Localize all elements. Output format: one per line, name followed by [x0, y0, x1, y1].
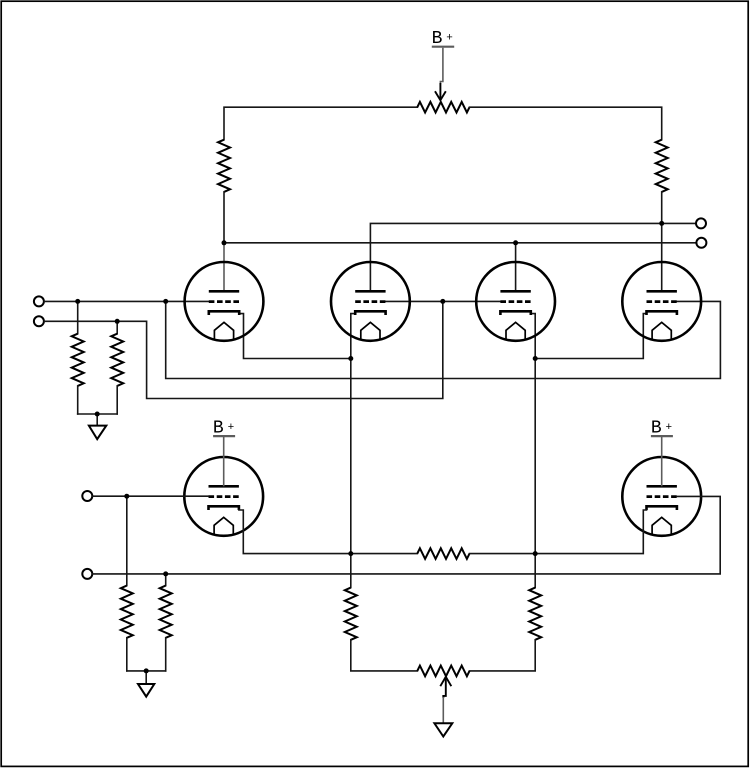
wire R4-R5 join [78, 413, 118, 415]
wire J1 cross-couple to V4 grid [166, 301, 721, 378]
potentiometer R13 (balance) [417, 666, 469, 677]
junction node [513, 240, 518, 245]
ground G2 [138, 671, 154, 697]
wire V1 cathode lead [239, 314, 351, 359]
wire V5 plate lead [223, 436, 225, 486]
junction node [163, 571, 168, 576]
input terminal J2 [34, 316, 44, 326]
junction node [348, 356, 353, 361]
junction node [124, 494, 129, 499]
output terminal J5 [696, 218, 706, 228]
wire R2 to node [223, 192, 225, 243]
net label B+ (V6 supply) [651, 418, 673, 438]
wire V5 cathode lead to R8 [239, 510, 417, 554]
resistor R2 (left plate load) [218, 140, 230, 192]
potentiometer R1 [417, 102, 469, 113]
triode V3 [476, 262, 555, 341]
wiper arrow of R13 [440, 677, 451, 698]
resistor R10 [160, 574, 172, 671]
triode V2 [331, 262, 410, 341]
wire R8 to V6 cathode [470, 510, 647, 554]
wire R9-R10 join [127, 670, 166, 672]
input terminal J3 [82, 491, 92, 501]
resistor R8 (cross cathode) [417, 548, 469, 559]
wire J3 to V5 grid [93, 495, 209, 497]
resistor R9 [121, 496, 133, 671]
input terminal J1 [34, 296, 44, 306]
junction node [533, 356, 538, 361]
svg-text:+: + [666, 422, 673, 434]
junction node [440, 299, 445, 304]
junction node [163, 299, 168, 304]
wiper arrow of potentiometer R1 [435, 83, 446, 100]
triode V6 [622, 457, 701, 536]
wire V3 plate lead [515, 243, 517, 291]
wire output 1 (V2 plate to terminal) [370, 223, 696, 291]
junction node [115, 319, 120, 324]
wire J2 cross-couple to V2/V3 grids [44, 301, 443, 398]
resistor R12 (right tail) [470, 588, 542, 671]
resistor R4 [72, 301, 84, 414]
output terminal J6 [696, 238, 706, 248]
wire V2-V3 grid link [386, 300, 501, 302]
wire wiper to ground [442, 697, 444, 723]
resistor R5 [111, 321, 123, 414]
junction node [222, 240, 227, 245]
junction node [144, 668, 149, 673]
junction node [348, 551, 353, 556]
resistor R3 (right plate load) [656, 140, 668, 192]
wire top rail right [470, 107, 662, 140]
input terminal J4 [82, 569, 92, 579]
wire V2 cathode lead / long drop [351, 314, 355, 588]
svg-text:+: + [446, 33, 453, 45]
triode V1 [185, 262, 264, 341]
ground G1 [89, 414, 106, 439]
junction node [75, 299, 80, 304]
net label B+ (top supply) [432, 29, 455, 49]
wire V1 plate lead [223, 243, 225, 291]
wire V4 cathode lead [535, 314, 646, 359]
junction node [95, 412, 100, 417]
wire B+ feed to wiper [440, 48, 443, 84]
wire J1 to V1 grid [44, 300, 209, 302]
wire J4 to V6 grid [93, 496, 721, 574]
triode V5 [184, 457, 263, 536]
wire R3 through node to V4 plate [661, 192, 663, 291]
net label B+ (V5 supply) [213, 418, 235, 438]
ground G3 [434, 723, 452, 736]
wire V6 plate lead [661, 436, 663, 486]
wire top rail left [224, 107, 417, 140]
junction node [659, 221, 664, 226]
junction node [533, 551, 538, 556]
wire V3 cathode lead / long drop [531, 314, 535, 588]
resistor R11 (left tail) [345, 588, 418, 671]
wire output 2 (V1 plate rail to terminal) [224, 242, 696, 244]
triode V4 [622, 262, 701, 341]
svg-text:+: + [228, 422, 235, 434]
